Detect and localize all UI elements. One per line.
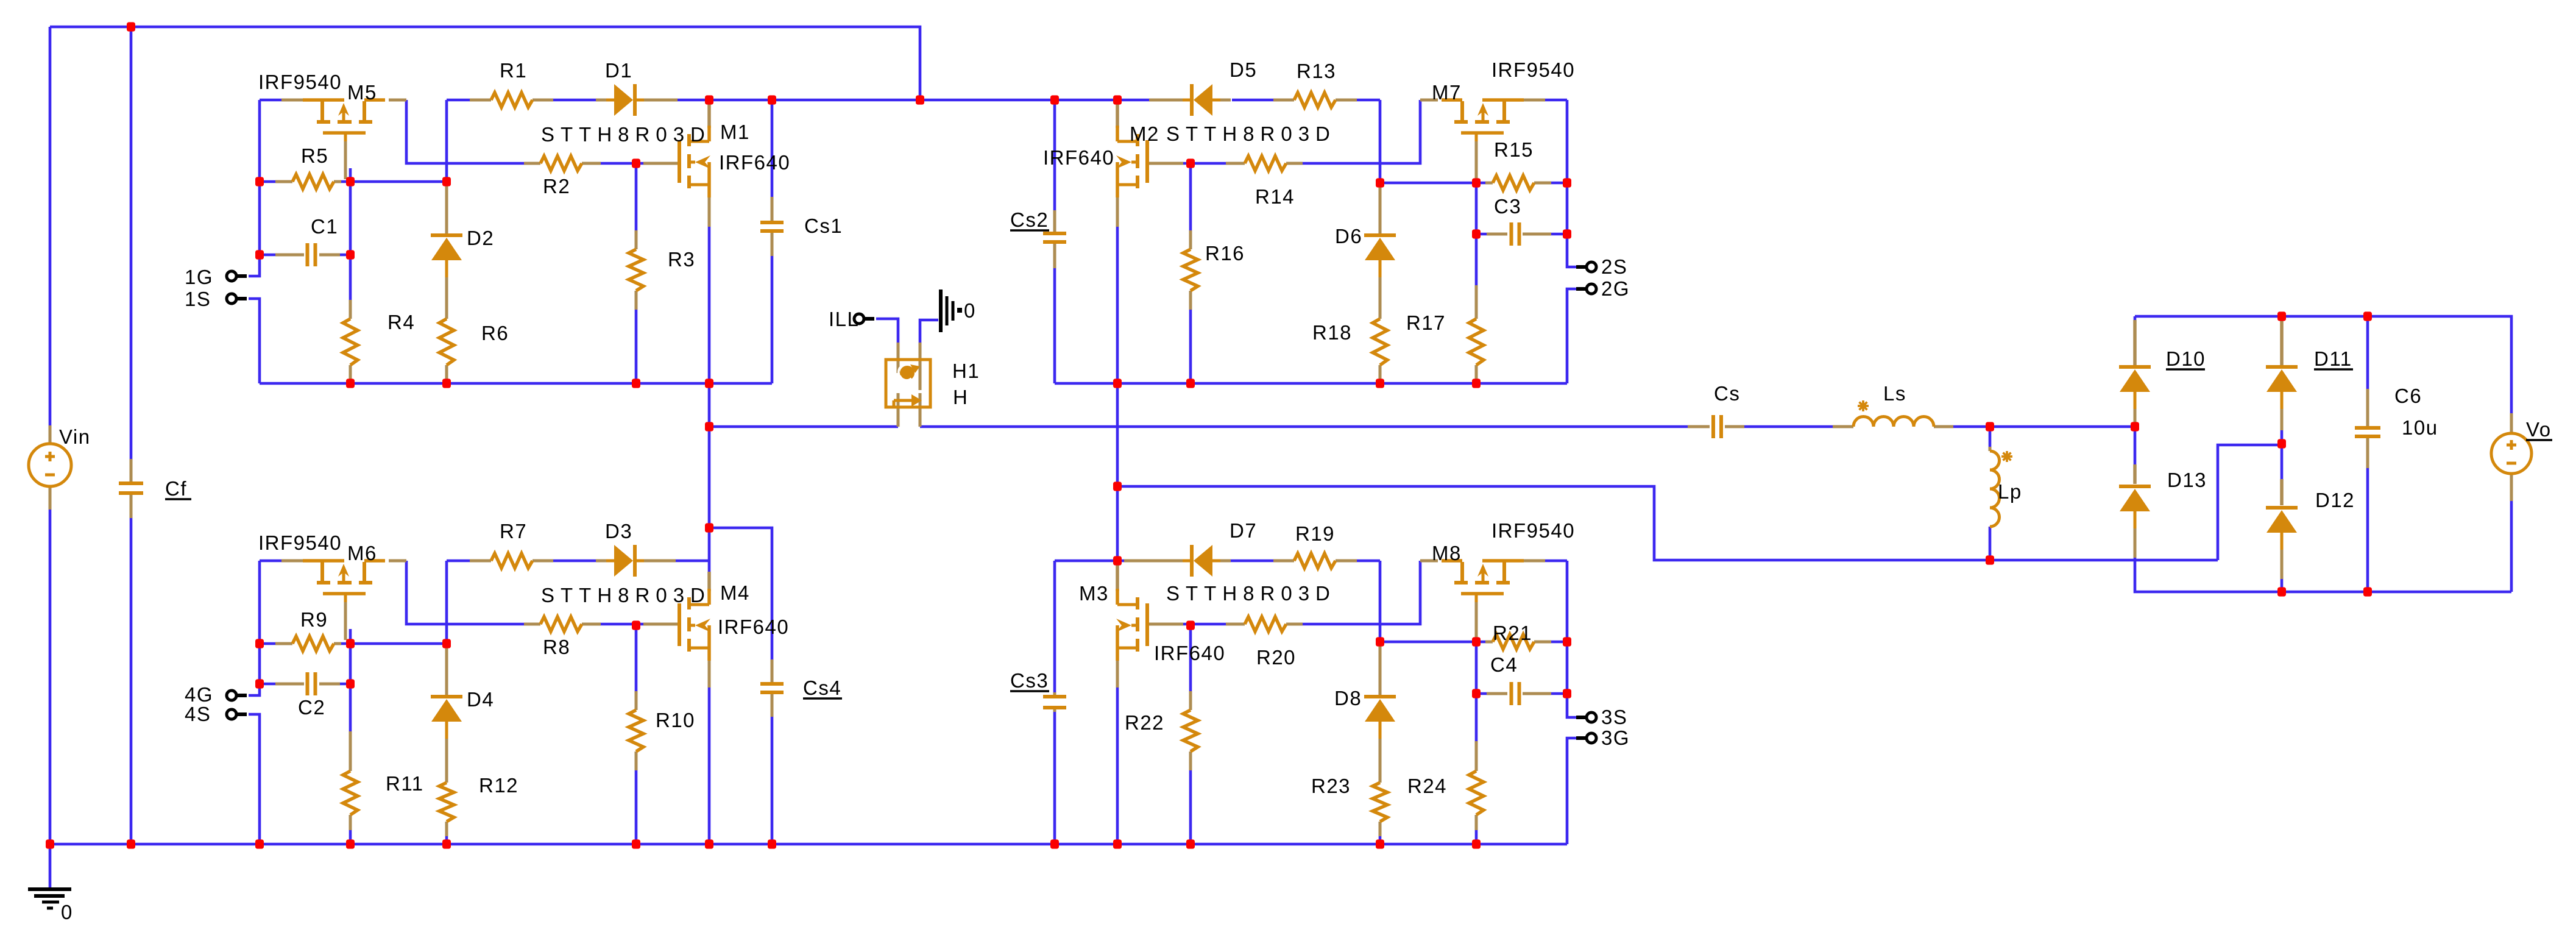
junction at 2423,629	[1472, 378, 1481, 388]
svg-text:Cs: Cs	[1714, 382, 1740, 405]
wire BR R19 drop	[1354, 560, 1380, 563]
svg-text:R6: R6	[481, 322, 509, 344]
svg-text:M3: M3	[1079, 582, 1109, 605]
junction at 215,1385	[127, 839, 135, 848]
svg-text:STTH8R03D: STTH8R03D	[1166, 582, 1336, 605]
junction at 575,298	[346, 177, 355, 186]
wire BR R20 to gate	[1183, 623, 1227, 626]
capacitor C3	[1510, 222, 1513, 246]
junction at 426,1056	[255, 639, 264, 648]
wire TR right vertical	[1567, 100, 1578, 267]
capacitor Cs3	[1043, 695, 1066, 698]
junction at 733,298	[442, 177, 451, 186]
wire BR gate vertical	[1475, 627, 1478, 694]
svg-text:D10: D10	[2166, 347, 2206, 370]
wire node B rail H1 to Cs	[920, 425, 1688, 428]
svg-text:R12: R12	[479, 774, 518, 797]
svg-text:R10: R10	[656, 709, 695, 731]
diode D4	[431, 695, 462, 698]
svg-text:R11: R11	[386, 772, 424, 795]
junction at 1834,798	[1113, 481, 1122, 491]
wire TR R13 drop	[1354, 99, 1380, 102]
Ls dot marker	[1858, 400, 1869, 411]
capacitor C1	[306, 243, 310, 266]
inductor Ls	[1853, 417, 1934, 427]
wire TL R2 to gate	[600, 162, 643, 165]
svg-text:R20: R20	[1256, 646, 1296, 669]
svg-text:D1: D1	[605, 59, 632, 82]
svg-text:R2: R2	[543, 175, 570, 197]
wire D10 top	[2134, 316, 2137, 323]
junction at 1164,700	[705, 422, 713, 431]
svg-text:H1: H1	[952, 360, 980, 382]
wire Ls to D10 node	[1953, 425, 2135, 428]
wire Lp bottom	[1989, 527, 1992, 560]
junction at 1954,1026	[1186, 620, 1195, 630]
diode D10	[2119, 365, 2151, 369]
resistor R19	[1294, 553, 1336, 568]
svg-text:Cs1: Cs1	[804, 215, 843, 237]
resistor R9	[292, 636, 334, 651]
svg-text:D4: D4	[467, 688, 494, 711]
svg-text:M1: M1	[720, 121, 750, 143]
svg-text:IRF640: IRF640	[718, 616, 789, 638]
transistor M8 IRF9540 PMOS	[1482, 559, 1524, 563]
wire BR C4 row	[1551, 692, 1567, 695]
junction at 1954,1385	[1186, 839, 1195, 848]
svg-text:R3: R3	[668, 248, 695, 271]
wire BL rail	[260, 560, 283, 563]
junction at 733,1385	[442, 839, 451, 848]
capacitor Cs1	[760, 221, 784, 224]
junction at 82,1385	[46, 839, 54, 848]
svg-text:C3: C3	[1494, 195, 1521, 218]
svg-text:IRF9540: IRF9540	[1491, 59, 1575, 81]
junction at 1834,920	[1113, 556, 1122, 565]
svg-text:C2: C2	[298, 696, 325, 719]
svg-text:D3: D3	[605, 520, 632, 542]
svg-text:D6: D6	[1335, 225, 1362, 247]
wire Cs to Ls	[1744, 425, 1833, 428]
resistor R17	[1469, 319, 1484, 365]
wire D11 top	[2281, 316, 2284, 323]
junction at 3886,519	[2363, 311, 2372, 321]
svg-text:0: 0	[61, 901, 73, 923]
diode D6	[1364, 233, 1396, 237]
wire TR R14 to gate	[1183, 162, 1227, 165]
wire BR 3G to rail	[1567, 738, 1578, 844]
svg-text:R22: R22	[1125, 711, 1164, 734]
wire TL 1S to rail	[249, 299, 260, 383]
voltage source Vin	[29, 444, 71, 486]
wire Cf riser	[130, 27, 133, 459]
junction at 1954,268	[1186, 158, 1195, 168]
junction at 2572,384	[1563, 229, 1571, 238]
svg-text:10u: 10u	[2402, 416, 2438, 439]
resistor R16	[1183, 249, 1198, 291]
junction at 1731,1385	[1050, 839, 1059, 848]
capacitor C2	[306, 672, 310, 695]
wire BL R11 bottom	[349, 829, 352, 844]
svg-text:Ls: Ls	[1883, 382, 1906, 405]
ground bars	[28, 887, 71, 891]
wire BL R12 bottom	[445, 835, 448, 844]
svg-text:IRF9540: IRF9540	[1491, 519, 1575, 542]
wire BR Cs3 corner	[1055, 560, 1117, 563]
wire BL M4 drain	[708, 528, 711, 573]
svg-text:3G: 3G	[1601, 727, 1630, 749]
wire riser to D11 D12 node	[2218, 445, 2282, 560]
wire BL gate vertical	[349, 629, 352, 684]
transistor M3 IRF640 NMOS	[1145, 603, 1149, 646]
junction at 1510,164	[916, 95, 924, 104]
junction at 2265,629	[1376, 378, 1384, 388]
diode D5	[1194, 84, 1212, 116]
wire BR right vertical	[1567, 694, 1578, 717]
junction at 426,1122	[255, 679, 264, 688]
svg-text:M2: M2	[1130, 123, 1159, 145]
capacitor Cs	[1711, 415, 1715, 438]
svg-text:M6: M6	[347, 542, 377, 564]
svg-text:1G: 1G	[185, 266, 213, 288]
svg-text:C4: C4	[1490, 653, 1518, 676]
junction at 1164,1385	[705, 839, 713, 848]
svg-text:3S: 3S	[1601, 706, 1627, 728]
svg-text:R13: R13	[1297, 60, 1336, 82]
resistor R3	[629, 249, 643, 291]
junction at 3745,971	[2277, 587, 2286, 596]
wire BR R23 bottom	[1379, 835, 1382, 844]
junction at 575,1385	[346, 839, 355, 848]
voltage source Vo	[2491, 433, 2532, 474]
svg-text:D13: D13	[2167, 469, 2207, 491]
svg-text:Cf: Cf	[165, 477, 187, 500]
svg-text:IRF9540: IRF9540	[258, 531, 342, 554]
svg-text:Vin: Vin	[59, 425, 91, 448]
wire TR C3 row	[1551, 233, 1567, 236]
svg-text:M5: M5	[347, 81, 377, 104]
resistor R20	[1245, 617, 1286, 631]
svg-text:IRF640: IRF640	[1154, 642, 1225, 664]
wire BL M6 jog	[406, 561, 524, 624]
wire TL Cs1	[771, 100, 774, 197]
wire TL C1 row	[260, 254, 275, 257]
junction at 426,418	[255, 250, 264, 259]
junction at 3504,700	[2131, 422, 2139, 431]
wire BR rail	[1543, 560, 1567, 563]
wire TL R1 drop	[447, 99, 472, 102]
wire BL M4 source	[708, 669, 711, 844]
resistor R11	[343, 771, 358, 815]
wire BR R21 row	[1551, 641, 1567, 644]
diode D11	[2266, 365, 2298, 369]
resistor R6	[439, 319, 454, 365]
wire BL left vertical	[249, 561, 260, 695]
wire Vo bottom	[2510, 501, 2513, 592]
junction at 575,629	[346, 378, 355, 388]
svg-text:Lp: Lp	[1998, 480, 2022, 503]
svg-text:R24: R24	[1407, 775, 1447, 797]
junction at 2423,1385	[1472, 839, 1481, 848]
svg-text:0: 0	[964, 299, 976, 322]
svg-text:R5: R5	[301, 144, 328, 167]
resistor R2	[540, 156, 582, 171]
capacitor Cs2	[1043, 232, 1066, 235]
svg-text:R7: R7	[500, 520, 527, 542]
wire D13 anode to out-	[2135, 556, 2511, 592]
svg-text:C1: C1	[311, 215, 338, 238]
svg-text:R18: R18	[1312, 321, 1352, 344]
svg-text:M8: M8	[1432, 542, 1462, 564]
junction at 2265,300	[1376, 178, 1384, 187]
inductor Lp	[1990, 451, 2000, 527]
wire D10 bottom	[2134, 423, 2137, 427]
wire top rail	[260, 99, 283, 102]
junction at 2572,300	[1563, 178, 1571, 187]
junction at 2265,1053	[1376, 637, 1384, 646]
wire D12 top	[2281, 445, 2284, 481]
resistor R4	[343, 319, 358, 365]
resistor R23	[1373, 783, 1387, 822]
svg-text:R15: R15	[1494, 138, 1534, 161]
wire TR bottom rail	[1055, 382, 1567, 385]
svg-text:IRF640: IRF640	[1043, 146, 1114, 169]
transistor M7 IRF9540 PMOS	[1482, 98, 1524, 102]
svg-text:D5: D5	[1230, 59, 1257, 81]
junction at 1044,629	[632, 378, 640, 388]
wire TL R5 row	[260, 180, 275, 183]
transistor M5 IRF9540 PMOS	[303, 98, 344, 102]
diode D3	[614, 545, 633, 577]
svg-text:R23: R23	[1311, 775, 1351, 797]
junction at 3266,919	[1986, 555, 1994, 564]
wire BL R7 drop	[447, 560, 472, 563]
junction at 1164,164	[705, 95, 713, 104]
capacitor Cf	[119, 481, 143, 485]
svg-text:M4: M4	[720, 581, 750, 604]
transformer H1	[886, 360, 930, 407]
svg-text:R8: R8	[543, 636, 570, 658]
resistor R13	[1294, 93, 1336, 107]
svg-text:ILL: ILL	[829, 308, 859, 330]
junction at 733,629	[442, 378, 451, 388]
junction at 2423,1138	[1472, 689, 1481, 698]
capacitor Cs4	[760, 682, 784, 686]
junction at 215,44	[127, 22, 135, 31]
junction at 2423,1053	[1472, 637, 1481, 646]
wire C6 riser	[2366, 316, 2369, 391]
junction at 1834,1385	[1113, 839, 1122, 848]
junction at 1164,866	[705, 523, 713, 532]
junction at 3266,700	[1986, 422, 1994, 431]
resistor R12	[439, 783, 454, 822]
wire out+ rail	[2135, 316, 2511, 416]
junction at 575,1056	[346, 639, 355, 648]
svg-text:IRF9540: IRF9540	[258, 71, 342, 93]
wire Vin bottom	[49, 510, 52, 844]
svg-text:Cs4: Cs4	[803, 677, 841, 699]
junction at 733,1056	[442, 639, 451, 648]
svg-text:R14: R14	[1255, 185, 1295, 208]
svg-text:R19: R19	[1295, 522, 1335, 545]
junction at 575,418	[346, 250, 355, 259]
wire BL R8 to gate	[600, 623, 643, 626]
transistor M4 IRF640 NMOS	[678, 603, 681, 646]
junction at 2572,1138	[1563, 689, 1571, 698]
junction at 2423,300	[1472, 178, 1481, 187]
junction at 575,1122	[346, 679, 355, 688]
wire TL bottom rail	[260, 382, 772, 385]
svg-text:4S: 4S	[185, 703, 211, 725]
transistor M2 IRF640 NMOS	[1145, 140, 1149, 183]
diode D13	[2119, 485, 2151, 488]
junction at 426,1385	[255, 839, 264, 848]
Lp dot marker	[2001, 451, 2012, 462]
wire BL R9 row	[260, 642, 275, 645]
svg-text:R1: R1	[500, 59, 527, 82]
junction at 3745,519	[2277, 311, 2286, 321]
wire node A rail	[709, 425, 898, 428]
wire TR R15 row	[1551, 182, 1567, 185]
svg-text:D7: D7	[1230, 519, 1257, 542]
resistor R22	[1183, 710, 1198, 751]
svg-text:D11: D11	[2314, 347, 2352, 370]
junction at 1834,164	[1113, 95, 1122, 104]
svg-text:IRF640: IRF640	[719, 151, 790, 174]
svg-text:2G: 2G	[1601, 277, 1630, 300]
junction at 1044,1385	[632, 839, 640, 848]
svg-text:STTH8R03D: STTH8R03D	[1166, 123, 1336, 145]
junction at 1731,164	[1050, 95, 1059, 104]
capacitor C4	[1510, 682, 1513, 705]
junction at 1044,268	[632, 158, 640, 168]
resistor R15	[1493, 176, 1534, 190]
resistor R18	[1373, 319, 1387, 365]
wire TL gate vertical	[349, 168, 352, 255]
resistor R1	[491, 93, 533, 107]
junction at 1164,629	[705, 378, 713, 388]
junction at 2423,384	[1472, 229, 1481, 238]
junction at 2572,1053	[1563, 637, 1571, 646]
wire BR R24 bottom	[1475, 829, 1478, 844]
transistor M6 IRF9540 PMOS	[303, 559, 344, 563]
svg-text:D8: D8	[1334, 687, 1362, 709]
capacitor C6	[2355, 426, 2380, 430]
svg-text:R9: R9	[300, 608, 328, 631]
wire TL M1 source down	[708, 207, 711, 528]
svg-text:Cs3: Cs3	[1010, 669, 1049, 692]
wire node B jog	[1117, 486, 2218, 560]
resistor R21	[1493, 634, 1534, 649]
wire TR M2 source down	[1116, 207, 1119, 560]
junction at 426,298	[255, 177, 264, 186]
wire D13 top	[2134, 427, 2137, 466]
wire H1 pin2 to gnd	[920, 320, 938, 343]
junction at 1267,1385	[768, 839, 776, 848]
wire TL left vertical	[249, 100, 260, 276]
wire bottom rail	[50, 843, 1567, 846]
wire D12 bottom	[2281, 578, 2284, 592]
svg-text:R21: R21	[1493, 622, 1532, 644]
svg-text:2S: 2S	[1601, 255, 1627, 278]
wire BL C2 row	[260, 683, 275, 686]
resistor R24	[1469, 771, 1484, 815]
wire BR M3 source	[1116, 669, 1119, 844]
junction at 1267,164	[768, 95, 776, 104]
wire top feed	[50, 27, 920, 100]
wire TR Cs2	[1053, 100, 1056, 210]
svg-text:H: H	[953, 386, 968, 408]
resistor R10	[629, 710, 643, 751]
wire TR 2G to rail	[1567, 289, 1578, 383]
wire TR R16 vertical	[1189, 163, 1192, 230]
wire TR gate vertical	[1475, 169, 1478, 234]
wire BL R10 vertical	[635, 625, 638, 691]
wire BR M8 jog	[1303, 561, 1420, 624]
svg-text:Cs2: Cs2	[1010, 208, 1049, 231]
resistor R8	[540, 617, 582, 631]
junction at 1834,629	[1113, 378, 1122, 388]
svg-text:1S: 1S	[185, 288, 211, 310]
svg-text:D2: D2	[467, 227, 494, 249]
diode D1	[614, 84, 633, 116]
diode D8	[1364, 695, 1396, 698]
resistor R14	[1245, 156, 1286, 171]
svg-text:D12: D12	[2315, 489, 2355, 511]
resistor R5	[292, 174, 334, 189]
svg-text:STTH8R03D: STTH8R03D	[541, 123, 711, 146]
wire Cf bottom	[130, 518, 133, 844]
diode D7	[1194, 545, 1212, 577]
svg-text:M7: M7	[1432, 81, 1462, 104]
junction at 2265,1385	[1376, 839, 1384, 848]
transistor M1 IRF640 NMOS	[678, 140, 681, 183]
svg-text:C6: C6	[2394, 385, 2422, 407]
wire TR M7 jog	[1303, 100, 1420, 163]
diode D2	[431, 233, 462, 237]
wire BL 4S to rail	[249, 714, 260, 844]
junction at 3886,971	[2363, 587, 2372, 596]
wire TL M5 jog	[406, 100, 524, 163]
junction at 3745,728	[2277, 439, 2286, 448]
svg-text:R4: R4	[387, 311, 415, 333]
diode D12	[2266, 506, 2298, 510]
wire BR R22 vertical	[1189, 625, 1192, 691]
svg-text:Vo: Vo	[2526, 418, 2552, 441]
junction at 1954,629	[1186, 378, 1195, 388]
svg-text:R16: R16	[1205, 242, 1245, 265]
wire Cs4 bottom	[771, 717, 774, 844]
svg-text:STTH8R03D: STTH8R03D	[541, 584, 711, 606]
wire ILL to H1	[876, 319, 898, 343]
wire left Vin riser	[49, 27, 52, 425]
wire Lp top	[1989, 427, 1992, 447]
gnd bars H1	[939, 290, 943, 332]
junction at 1044,1026	[632, 620, 640, 630]
svg-text:R17: R17	[1406, 311, 1446, 334]
resistor R7	[491, 553, 533, 568]
wire TL jog to Cs4	[709, 528, 772, 659]
wire D11 bottom	[2281, 429, 2284, 445]
wire TL R3 vertical	[635, 163, 638, 230]
